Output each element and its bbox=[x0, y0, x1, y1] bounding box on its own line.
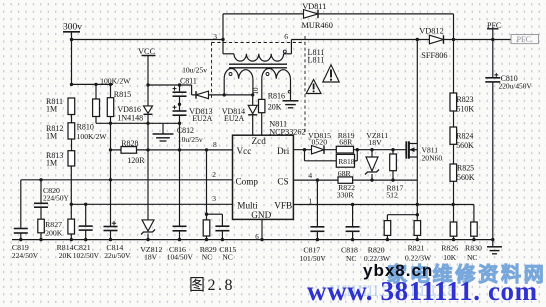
svg-text:PFC: PFC bbox=[517, 35, 532, 44]
svg-text:68R: 68R bbox=[339, 137, 353, 146]
svg-text:20N60: 20N60 bbox=[422, 153, 443, 162]
svg-text:GND: GND bbox=[251, 210, 271, 220]
svg-text:101/50V: 101/50V bbox=[300, 254, 327, 263]
svg-text:R826: R826 bbox=[441, 244, 458, 253]
svg-text:R824: R824 bbox=[456, 132, 473, 141]
svg-text:18V: 18V bbox=[144, 253, 158, 262]
svg-text:C811: C811 bbox=[180, 76, 197, 85]
svg-text:Comp: Comp bbox=[236, 176, 259, 186]
svg-text:R816: R816 bbox=[268, 91, 285, 100]
svg-text:C818: C818 bbox=[341, 245, 358, 254]
svg-text:VFB: VFB bbox=[274, 201, 292, 211]
svg-text:102/50V: 102/50V bbox=[73, 251, 100, 260]
svg-text:VCC: VCC bbox=[138, 47, 156, 56]
svg-text:10u/25v: 10u/25v bbox=[178, 135, 203, 144]
svg-text:510K: 510K bbox=[457, 105, 475, 114]
svg-text:100K/2W: 100K/2W bbox=[100, 77, 131, 86]
svg-text:Vcc: Vcc bbox=[237, 146, 252, 156]
svg-text:18V: 18V bbox=[368, 138, 382, 147]
svg-text:NC: NC bbox=[202, 253, 212, 262]
svg-text:NCP33262: NCP33262 bbox=[269, 128, 305, 137]
svg-text:8: 8 bbox=[213, 140, 217, 149]
svg-text:SFF806: SFF806 bbox=[421, 51, 447, 60]
svg-text:R828: R828 bbox=[121, 139, 138, 148]
svg-text:Zcd: Zcd bbox=[252, 136, 267, 146]
svg-text:R830: R830 bbox=[465, 244, 482, 253]
svg-text:EU2A: EU2A bbox=[224, 114, 244, 123]
svg-text:10: 10 bbox=[252, 87, 260, 95]
svg-text:20K: 20K bbox=[59, 251, 73, 260]
svg-text:VD812: VD812 bbox=[419, 27, 443, 36]
svg-text:68R: 68R bbox=[338, 169, 352, 178]
svg-text:4: 4 bbox=[308, 171, 312, 180]
svg-text:2: 2 bbox=[212, 170, 216, 179]
svg-text:C812: C812 bbox=[177, 126, 194, 135]
svg-text:1M: 1M bbox=[46, 158, 57, 167]
svg-text:R821: R821 bbox=[408, 244, 425, 253]
svg-text:6: 6 bbox=[255, 233, 259, 241]
svg-text:C817: C817 bbox=[303, 245, 320, 254]
svg-text:20K: 20K bbox=[268, 103, 282, 112]
svg-text:10u/25v: 10u/25v bbox=[182, 65, 207, 74]
svg-text:3: 3 bbox=[212, 194, 216, 203]
svg-text:MUR460: MUR460 bbox=[302, 21, 333, 30]
svg-text:NC: NC bbox=[222, 253, 232, 262]
svg-text:220u/450V: 220u/450V bbox=[499, 81, 533, 90]
svg-text:R825: R825 bbox=[457, 164, 474, 173]
svg-text:6: 6 bbox=[284, 32, 288, 41]
svg-text:0520: 0520 bbox=[312, 138, 328, 147]
svg-text:1N4148: 1N4148 bbox=[117, 113, 143, 122]
svg-text:R815: R815 bbox=[114, 90, 131, 99]
svg-text:560K: 560K bbox=[456, 141, 474, 150]
svg-text:EU2A: EU2A bbox=[192, 114, 212, 123]
svg-text:120R: 120R bbox=[127, 156, 145, 165]
svg-text:560K: 560K bbox=[457, 173, 475, 182]
svg-text:224/50V: 224/50V bbox=[12, 251, 39, 260]
svg-text:+: + bbox=[308, 138, 312, 144]
svg-text:3: 3 bbox=[213, 32, 217, 41]
svg-text:104/50V: 104/50V bbox=[167, 253, 194, 262]
svg-text:R823: R823 bbox=[457, 95, 474, 104]
svg-text:R810: R810 bbox=[77, 122, 94, 131]
svg-text:1M: 1M bbox=[46, 132, 57, 141]
svg-text:CS: CS bbox=[277, 176, 288, 186]
svg-text:NC: NC bbox=[346, 254, 356, 263]
svg-text:Dri: Dri bbox=[277, 146, 290, 156]
svg-text:224/50Y: 224/50Y bbox=[43, 194, 70, 203]
svg-text:Multi: Multi bbox=[237, 200, 258, 210]
svg-text:22u/50V: 22u/50V bbox=[104, 251, 131, 260]
svg-text:512: 512 bbox=[386, 190, 398, 199]
svg-text:330R: 330R bbox=[337, 190, 355, 199]
svg-text:R820: R820 bbox=[368, 245, 385, 254]
svg-text:R818: R818 bbox=[338, 157, 355, 166]
svg-text:100K/2W: 100K/2W bbox=[77, 132, 108, 141]
svg-text:VD811: VD811 bbox=[302, 2, 326, 11]
svg-text:L811: L811 bbox=[308, 56, 325, 65]
svg-text:1M: 1M bbox=[46, 105, 57, 114]
svg-text:300v: 300v bbox=[63, 23, 82, 33]
svg-text:200K: 200K bbox=[45, 228, 63, 237]
svg-text:1: 1 bbox=[308, 197, 312, 206]
svg-text:PFC: PFC bbox=[487, 21, 501, 30]
